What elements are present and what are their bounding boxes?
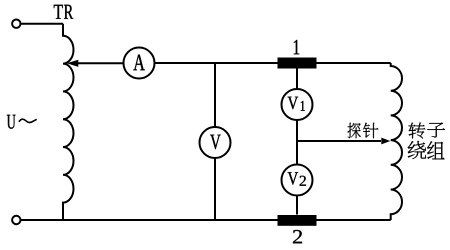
label V1 xyxy=(288,97,298,110)
probe arrow shaft xyxy=(297,140,381,142)
wire: bottom rail from terminal to slip ring 2 xyxy=(21,219,278,221)
wire: TR tap arrow shaft to ammeter xyxy=(76,62,124,64)
wire: voltmeter V to bottom rail xyxy=(214,158,216,220)
label 1 (slip ring 1) xyxy=(294,40,299,54)
probe arrowhead xyxy=(381,138,390,145)
wire: slip ring 1 to right corner xyxy=(317,62,391,64)
slip ring 1 (bar) xyxy=(278,58,317,69)
autotransformer TR winding xyxy=(63,24,74,220)
voltmeter V2 body xyxy=(282,165,313,196)
ammeter A body xyxy=(124,48,155,79)
wire: slip ring 1 to voltmeter V1 xyxy=(296,69,298,90)
wire: slip ring 2 to right corner xyxy=(317,219,391,221)
TR tap arrowhead xyxy=(67,60,79,67)
label 转子绕组 (rotor winding) line 2 xyxy=(408,141,426,159)
terminal bottom-left xyxy=(12,216,20,224)
wire: V1 to V2 with probe junction xyxy=(296,120,298,165)
rotor winding coil xyxy=(391,63,402,220)
tilde of U~ xyxy=(19,119,37,122)
voltmeter V1 body xyxy=(282,89,313,120)
label V2 xyxy=(288,172,298,185)
wire: V2 to slip ring 2 xyxy=(296,196,298,215)
wire: junction down to voltmeter V xyxy=(214,63,216,127)
slip ring 2 (bar) xyxy=(278,215,317,226)
label U~ xyxy=(7,115,16,129)
voltmeter label V xyxy=(210,135,220,150)
label TR xyxy=(54,5,63,19)
terminal top-left xyxy=(12,20,20,28)
label 转子绕组 (rotor winding) line 1 xyxy=(409,123,426,139)
label 2 (slip ring 2) xyxy=(293,230,302,243)
wire: ammeter to slip ring 1 xyxy=(155,62,278,64)
label 探针 (probe) xyxy=(348,123,361,138)
ammeter label A xyxy=(133,55,144,71)
wire: top terminal to TR coil xyxy=(21,23,64,25)
voltmeter V body xyxy=(200,127,231,158)
